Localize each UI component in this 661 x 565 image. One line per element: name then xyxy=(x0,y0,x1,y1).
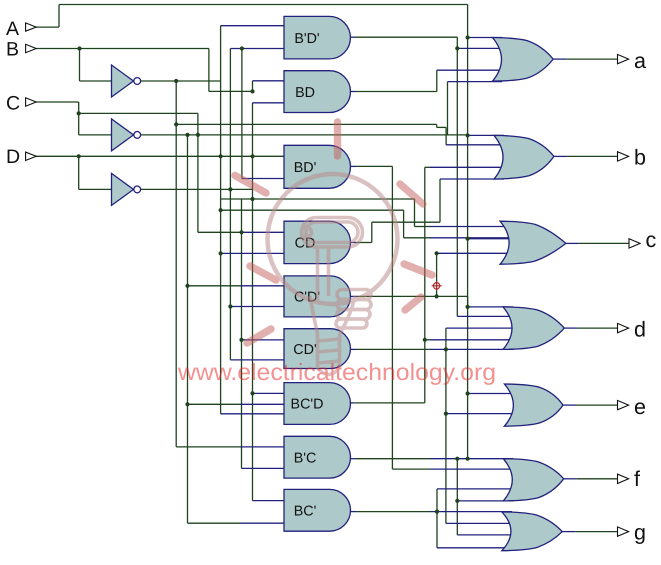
svg-text:f: f xyxy=(634,467,640,491)
svg-text:C: C xyxy=(6,93,20,115)
svg-text:a: a xyxy=(634,49,646,73)
svg-text:A: A xyxy=(6,18,19,40)
svg-text:D: D xyxy=(6,146,20,168)
svg-text:e: e xyxy=(634,395,646,419)
svg-text:b: b xyxy=(634,146,646,170)
svg-text:BC': BC' xyxy=(294,504,317,520)
svg-text:c: c xyxy=(646,228,657,252)
svg-text:BC'D: BC'D xyxy=(291,397,324,413)
svg-text:CD': CD' xyxy=(293,342,317,358)
svg-text:BD: BD xyxy=(295,85,315,101)
svg-text:B'C: B'C xyxy=(294,450,317,466)
svg-text:g: g xyxy=(634,521,646,545)
svg-text:B'D': B'D' xyxy=(294,31,320,47)
svg-text:BD': BD' xyxy=(294,160,317,176)
svg-text:d: d xyxy=(634,318,646,342)
svg-text:B: B xyxy=(6,38,19,60)
svg-text:www.electricaltechnology.org: www.electricaltechnology.org xyxy=(177,359,496,385)
